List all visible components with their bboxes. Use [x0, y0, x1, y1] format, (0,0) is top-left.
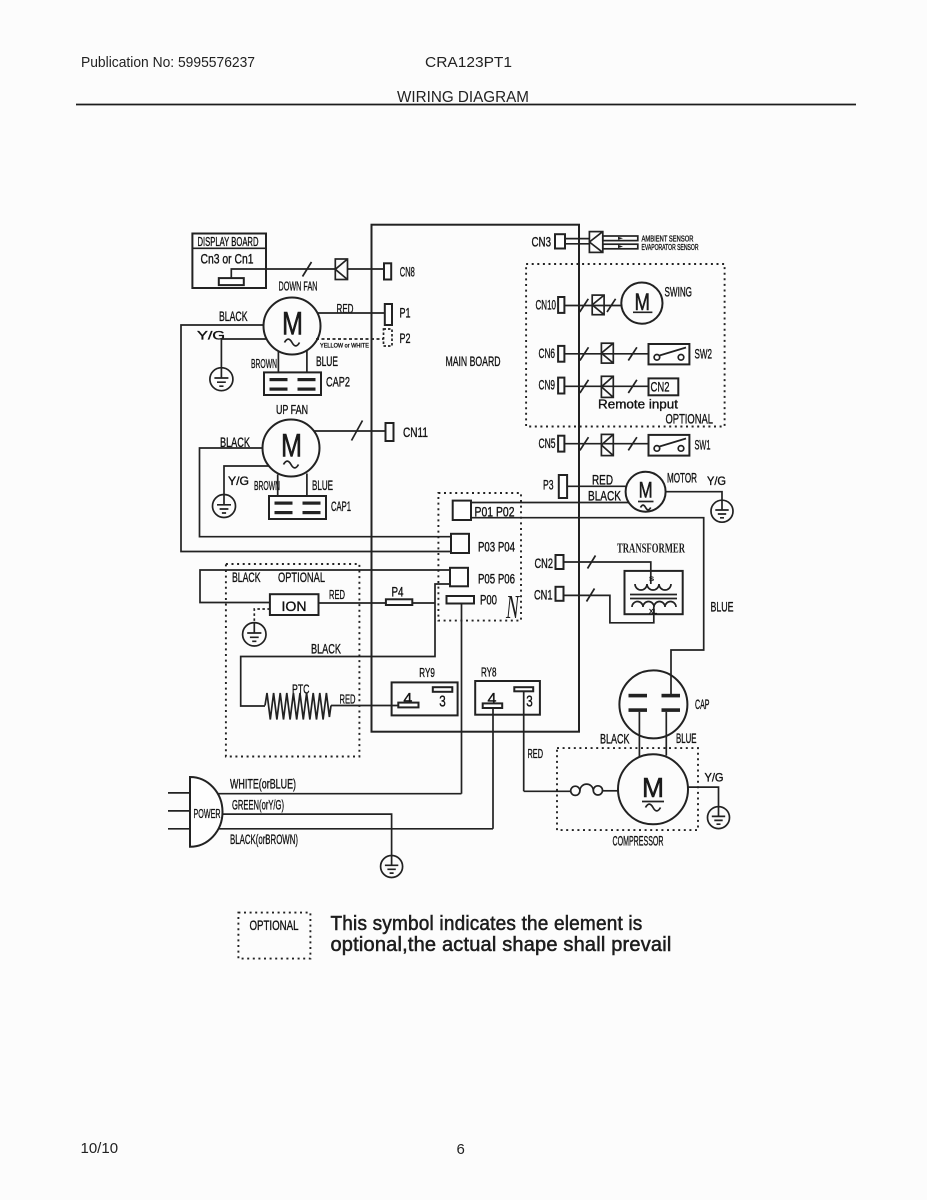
svg-text:BLACK: BLACK — [219, 308, 248, 324]
svg-text:GREEN(orY/G): GREEN(orY/G) — [232, 797, 284, 813]
svg-text:Cn3 or Cn1: Cn3 or Cn1 — [201, 251, 254, 267]
svg-text:CAP2: CAP2 — [326, 374, 350, 390]
svg-text:BLUE: BLUE — [711, 599, 734, 615]
svg-text:6: 6 — [457, 1141, 465, 1158]
svg-text:CN11: CN11 — [403, 424, 428, 440]
svg-text:BLUE: BLUE — [312, 477, 333, 493]
svg-text:Publication No: 5995576237: Publication No: 5995576237 — [81, 54, 255, 71]
svg-text:MAIN BOARD: MAIN BOARD — [446, 353, 501, 369]
svg-text:RED: RED — [329, 587, 345, 602]
svg-text:P00: P00 — [480, 592, 497, 608]
svg-text:XL: XL — [649, 610, 658, 616]
svg-text:P3: P3 — [543, 477, 554, 493]
svg-text:SW2: SW2 — [695, 346, 713, 362]
svg-text:OPTIONAL: OPTIONAL — [278, 569, 325, 585]
svg-text:OPTIONAL: OPTIONAL — [250, 917, 299, 933]
svg-text:Y/G: Y/G — [707, 474, 726, 488]
svg-text:EVAPORATOR SENSOR: EVAPORATOR SENSOR — [642, 242, 699, 252]
svg-text:CN10: CN10 — [536, 297, 557, 313]
svg-text:This symbol indicates the elem: This symbol indicates the element is — [331, 913, 643, 935]
svg-text:RY8: RY8 — [481, 666, 497, 680]
svg-text:10/10: 10/10 — [81, 1140, 119, 1157]
svg-text:OPTIONAL: OPTIONAL — [666, 411, 714, 427]
svg-text:COMPRESSOR: COMPRESSOR — [613, 833, 664, 849]
svg-text:CN3: CN3 — [532, 234, 552, 250]
svg-text:RY9: RY9 — [419, 666, 435, 680]
svg-text:SWING: SWING — [665, 284, 693, 300]
svg-text:BLACK: BLACK — [232, 569, 261, 585]
svg-text:CAP1: CAP1 — [331, 498, 351, 514]
svg-text:ION: ION — [282, 598, 307, 614]
svg-text:BLACK: BLACK — [600, 731, 630, 747]
svg-text:BLUE: BLUE — [676, 730, 697, 746]
svg-text:P2: P2 — [400, 330, 411, 346]
svg-text:CN2: CN2 — [535, 555, 554, 571]
svg-text:optional,the actual shape shal: optional,the actual shape shall prevail — [331, 934, 672, 956]
svg-text:CAP: CAP — [695, 696, 710, 712]
svg-text:N: N — [505, 589, 520, 626]
svg-text:CN1: CN1 — [534, 587, 553, 603]
svg-text:Y/G: Y/G — [705, 771, 724, 785]
svg-text:YELLOW or WHITE: YELLOW or WHITE — [320, 343, 370, 350]
svg-text:RED: RED — [528, 746, 544, 761]
svg-text:CN9: CN9 — [539, 377, 556, 393]
svg-text:CN8: CN8 — [400, 264, 415, 280]
svg-text:RED: RED — [340, 692, 356, 707]
svg-text:CN2: CN2 — [651, 379, 670, 395]
svg-text:M: M — [642, 772, 664, 803]
svg-text:MOTOR: MOTOR — [667, 470, 697, 486]
svg-text:SW1: SW1 — [695, 437, 711, 453]
svg-text:DOWN FAN: DOWN FAN — [279, 279, 318, 294]
svg-text:BLACK: BLACK — [588, 488, 621, 504]
svg-text:CRA123PT1: CRA123PT1 — [425, 54, 512, 71]
svg-text:BLACK(orBROWN): BLACK(orBROWN) — [230, 831, 298, 847]
svg-text:BLUE: BLUE — [316, 353, 338, 369]
svg-text:P05 P06: P05 P06 — [478, 571, 515, 587]
svg-text:UP FAN: UP FAN — [276, 402, 308, 417]
svg-text:3: 3 — [439, 694, 446, 711]
svg-text:M: M — [282, 306, 303, 342]
svg-text:TRANSFORMER: TRANSFORMER — [617, 541, 685, 556]
svg-text:RED: RED — [592, 472, 613, 488]
svg-text:P4: P4 — [392, 584, 404, 600]
svg-text:P1: P1 — [400, 305, 411, 321]
svg-text:S: S — [649, 577, 654, 583]
svg-text:CN5: CN5 — [539, 435, 556, 451]
svg-text:CN6: CN6 — [539, 345, 556, 361]
svg-text:Y/G: Y/G — [228, 474, 249, 488]
svg-text:DISPLAY BOARD: DISPLAY BOARD — [198, 234, 259, 249]
svg-text:M: M — [639, 478, 653, 503]
svg-text:Remote input: Remote input — [598, 398, 679, 412]
svg-text:BROWN: BROWN — [254, 478, 280, 493]
svg-text:3: 3 — [526, 694, 533, 711]
svg-text:POWER: POWER — [194, 806, 221, 821]
svg-text:BLACK: BLACK — [311, 641, 341, 657]
svg-text:WIRING DIAGRAM: WIRING DIAGRAM — [397, 89, 529, 106]
svg-text:M: M — [281, 428, 302, 464]
svg-text:WHITE(orBLUE): WHITE(orBLUE) — [230, 776, 296, 792]
svg-text:BROWN: BROWN — [251, 356, 277, 371]
svg-text:P03 P04: P03 P04 — [478, 539, 515, 555]
